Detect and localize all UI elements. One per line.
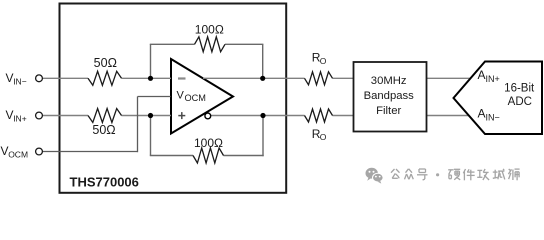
- svg-text:Bandpass: Bandpass: [364, 90, 415, 102]
- watermark char hao: [417, 169, 428, 180]
- node dot C (upper output): [260, 76, 265, 81]
- op-amp inverting output bubble: [205, 113, 211, 119]
- svg-text:50Ω: 50Ω: [94, 56, 117, 70]
- watermark wechat icon: [366, 168, 384, 184]
- svg-text:IN−: IN−: [13, 77, 27, 87]
- watermark char ying: [448, 169, 460, 180]
- svg-text:O: O: [320, 132, 327, 142]
- resistor R1 50ohm (V_IN- path): [88, 71, 122, 85]
- svg-text:IN+: IN+: [13, 113, 27, 123]
- svg-text:100Ω: 100Ω: [194, 136, 223, 150]
- wire upper output line: [203, 77, 470, 79]
- watermark char cheng: [493, 169, 505, 180]
- wire top feedback loop: [150, 44, 264, 78]
- watermark char zhong: [405, 169, 414, 180]
- svg-text:IN−: IN−: [486, 112, 500, 122]
- svg-text:16-Bit: 16-Bit: [504, 83, 535, 95]
- svg-text:OCM: OCM: [8, 149, 28, 159]
- svg-text:O: O: [320, 56, 327, 66]
- svg-text:30MHz: 30MHz: [371, 75, 407, 87]
- terminal V_OCM: [36, 148, 43, 155]
- wire V_OCM routing: [42, 97, 170, 153]
- resistor R2 50ohm (V_IN+ path): [88, 109, 122, 123]
- node dot A (inverting input): [148, 76, 153, 81]
- resistor R6 R_O lower: [305, 109, 333, 122]
- watermark char gong: [391, 169, 400, 178]
- bandpass filter box: [354, 62, 427, 132]
- wire bottom feedback loop: [150, 116, 264, 157]
- resistor R4 100ohm bottom feedback: [193, 148, 224, 163]
- resistor R5 R_O upper: [305, 72, 333, 85]
- node dot B (non-inverting input): [148, 113, 153, 118]
- svg-text:IN+: IN+: [486, 74, 500, 84]
- wire lower output line: [211, 115, 470, 117]
- wire V_IN- input line: [42, 77, 171, 79]
- svg-text:A: A: [478, 68, 486, 82]
- svg-text:Filter: Filter: [376, 105, 401, 117]
- op-amp minus input symbol: [178, 77, 186, 79]
- node dot D (lower output): [260, 113, 265, 118]
- watermark char jian: [463, 169, 474, 180]
- wire V_IN+ input line: [42, 115, 171, 117]
- watermark separator dot: [436, 173, 439, 176]
- svg-text:50Ω: 50Ω: [92, 123, 115, 137]
- IC outline box THS770006: [60, 4, 287, 193]
- op-amp U1 triangle body: [171, 59, 233, 134]
- svg-text:A: A: [478, 107, 486, 121]
- svg-text:OCM: OCM: [185, 93, 206, 103]
- op-amp plus input symbol: [178, 112, 185, 119]
- ADC block 16-Bit ADC: [454, 62, 543, 135]
- svg-text:V: V: [177, 90, 185, 102]
- svg-text:ADC: ADC: [508, 96, 532, 108]
- watermark char shi: [508, 169, 519, 180]
- svg-text:100Ω: 100Ω: [195, 23, 224, 37]
- terminal V_IN-: [36, 75, 43, 82]
- watermark char gongji: [477, 169, 489, 180]
- resistor R3 100ohm top feedback: [195, 37, 226, 52]
- terminal V_IN+: [36, 112, 43, 119]
- svg-text:THS770006: THS770006: [70, 175, 139, 190]
